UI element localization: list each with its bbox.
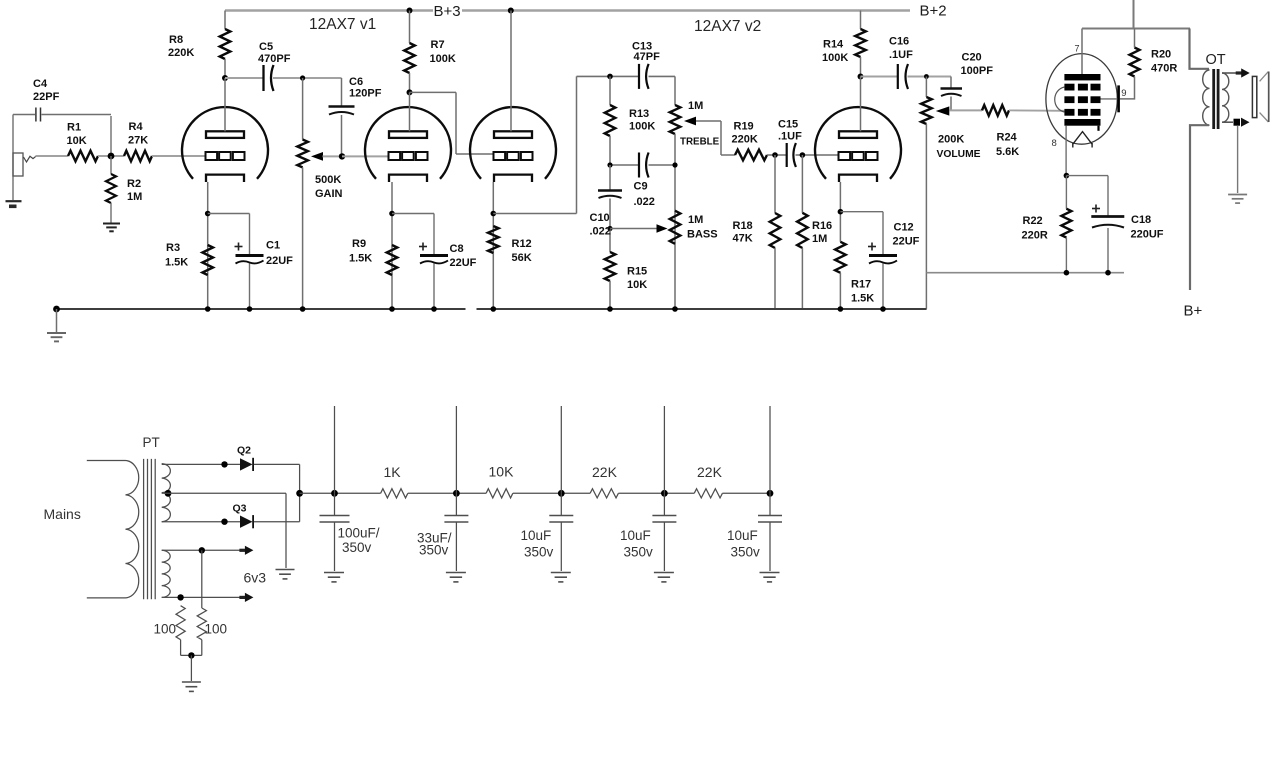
svg-text:100K: 100K	[430, 53, 456, 65]
svg-text:350v: 350v	[524, 545, 554, 560]
svg-text:1.5K: 1.5K	[349, 253, 372, 265]
svg-text:100K: 100K	[822, 52, 848, 64]
svg-text:350v: 350v	[419, 543, 449, 558]
svg-text:OT: OT	[1206, 52, 1226, 68]
svg-text:10K: 10K	[67, 135, 87, 147]
svg-text:22UF: 22UF	[893, 236, 920, 248]
svg-text:220K: 220K	[168, 47, 194, 59]
svg-text:C10: C10	[590, 212, 610, 224]
svg-text:1M: 1M	[688, 100, 703, 112]
svg-text:1K: 1K	[384, 464, 402, 480]
svg-text:R14: R14	[823, 39, 844, 51]
svg-text:100uF/: 100uF/	[338, 526, 380, 541]
svg-text:22UF: 22UF	[450, 257, 477, 269]
svg-text:Q2: Q2	[237, 445, 251, 457]
svg-text:22K: 22K	[697, 464, 723, 480]
svg-text:C20: C20	[962, 52, 982, 64]
svg-text:10uF: 10uF	[727, 528, 758, 543]
svg-text:R9: R9	[352, 238, 366, 250]
svg-text:220UF: 220UF	[1131, 229, 1164, 241]
svg-text:PT: PT	[143, 435, 160, 450]
svg-text:R8: R8	[169, 34, 183, 46]
svg-text:10uF: 10uF	[620, 528, 651, 543]
svg-text:10K: 10K	[489, 464, 515, 480]
svg-text:R7: R7	[431, 39, 445, 51]
svg-text:Mains: Mains	[44, 506, 81, 522]
svg-text:22K: 22K	[592, 464, 618, 480]
svg-text:47K: 47K	[733, 233, 753, 245]
svg-text:.022: .022	[634, 196, 655, 208]
svg-text:B+3: B+3	[434, 3, 461, 20]
svg-text:R13: R13	[629, 108, 649, 120]
svg-text:C18: C18	[1131, 214, 1151, 226]
svg-text:R20: R20	[1151, 49, 1171, 61]
svg-text:10uF: 10uF	[521, 528, 552, 543]
svg-text:100PF: 100PF	[961, 65, 994, 77]
svg-text:1.5K: 1.5K	[851, 293, 874, 305]
svg-text:220R: 220R	[1022, 230, 1048, 242]
svg-text:22PF: 22PF	[33, 91, 60, 103]
svg-text:C12: C12	[894, 222, 914, 234]
svg-text:9: 9	[1121, 88, 1126, 99]
svg-text:C8: C8	[450, 243, 464, 255]
svg-text:1.5K: 1.5K	[165, 257, 188, 269]
svg-text:R19: R19	[734, 121, 754, 133]
svg-text:100: 100	[205, 622, 228, 637]
svg-text:350v: 350v	[342, 540, 372, 555]
svg-text:500K: 500K	[315, 174, 341, 186]
svg-text:R16: R16	[812, 220, 832, 232]
svg-text:GAIN: GAIN	[315, 188, 343, 200]
svg-text:C6: C6	[349, 76, 363, 88]
svg-text:TREBLE: TREBLE	[680, 137, 720, 148]
svg-text:220K: 220K	[732, 134, 758, 146]
svg-text:.1UF: .1UF	[778, 131, 802, 143]
svg-text:56K: 56K	[512, 252, 532, 264]
svg-text:R1: R1	[67, 122, 81, 134]
svg-text:R4: R4	[129, 121, 144, 133]
svg-text:12AX7 v1: 12AX7 v1	[309, 16, 376, 33]
svg-text:R22: R22	[1023, 215, 1043, 227]
svg-text:120PF: 120PF	[349, 88, 382, 100]
svg-text:12AX7 v2: 12AX7 v2	[694, 18, 761, 35]
svg-text:C1: C1	[266, 240, 280, 252]
svg-text:200K: 200K	[938, 134, 964, 146]
svg-text:VOLUME: VOLUME	[937, 149, 981, 160]
svg-text:.1UF: .1UF	[889, 49, 913, 61]
svg-text:C15: C15	[778, 119, 798, 131]
svg-text:22UF: 22UF	[266, 255, 293, 267]
svg-text:6v3: 6v3	[244, 570, 267, 586]
svg-text:C16: C16	[889, 36, 909, 48]
svg-text:C4: C4	[33, 78, 48, 90]
svg-text:100: 100	[154, 622, 177, 637]
svg-text:R18: R18	[733, 220, 753, 232]
svg-text:1M: 1M	[812, 233, 827, 245]
svg-text:R15: R15	[627, 266, 647, 278]
svg-text:R17: R17	[851, 279, 871, 291]
svg-text:B+: B+	[1184, 303, 1203, 320]
svg-text:1M: 1M	[127, 191, 142, 203]
svg-text:R3: R3	[166, 242, 180, 254]
svg-text:.022: .022	[590, 226, 611, 238]
svg-text:R2: R2	[127, 178, 141, 190]
svg-text:27K: 27K	[128, 135, 148, 147]
svg-text:47PF: 47PF	[634, 51, 661, 63]
svg-text:Q3: Q3	[233, 503, 247, 515]
svg-text:350v: 350v	[731, 545, 761, 560]
svg-text:B+2: B+2	[920, 3, 947, 20]
svg-text:R24: R24	[997, 132, 1018, 144]
svg-text:R12: R12	[512, 238, 532, 250]
svg-text:100K: 100K	[629, 121, 655, 133]
svg-text:8: 8	[1052, 138, 1057, 149]
svg-text:BASS: BASS	[687, 229, 718, 241]
svg-text:C9: C9	[634, 181, 648, 193]
svg-text:470PF: 470PF	[258, 53, 291, 65]
svg-text:5.6K: 5.6K	[996, 146, 1019, 158]
svg-text:470R: 470R	[1151, 63, 1177, 75]
svg-text:7: 7	[1075, 44, 1080, 54]
svg-text:10K: 10K	[627, 279, 647, 291]
svg-text:C5: C5	[259, 41, 273, 53]
svg-text:350v: 350v	[624, 545, 654, 560]
svg-text:1M: 1M	[688, 214, 703, 226]
